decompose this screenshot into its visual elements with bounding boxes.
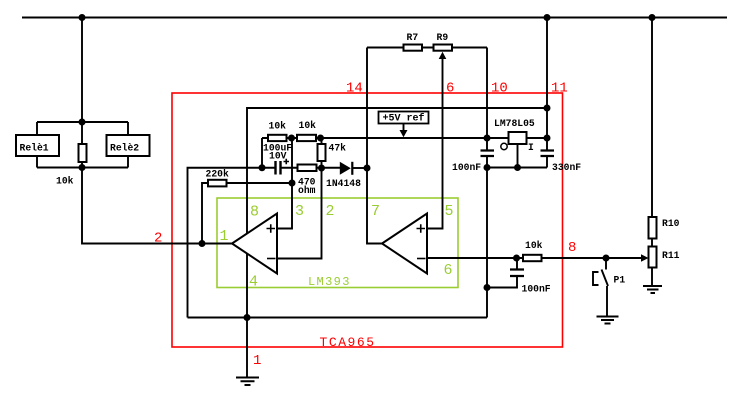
trimmer R11 (641, 247, 680, 268)
wire supply line pin 8 (247, 108, 547, 249)
node divider mid (288, 135, 295, 142)
ground R11 (643, 286, 662, 293)
wire 100nF2 lower lead to ground (487, 276, 517, 288)
IC box TCA965 (172, 93, 563, 347)
svg-text:1: 1 (253, 353, 261, 369)
pin label LM393 4 (249, 274, 258, 291)
wire 10k1 left lead corner (261, 138, 263, 168)
wire diode cathode lead (352, 167, 367, 169)
pushbutton P1 label (614, 275, 626, 286)
svg-text:6: 6 (444, 262, 453, 279)
svg-text:P1: P1 (614, 275, 626, 286)
svg-text:R7: R7 (407, 32, 419, 43)
pin label 10 (491, 81, 508, 97)
svg-text:3: 3 (295, 203, 304, 220)
svg-text:10k: 10k (525, 240, 543, 251)
node 100uF ground side (259, 164, 266, 171)
pin label 1 (253, 353, 261, 369)
svg-text:330nF: 330nF (552, 162, 581, 173)
node supply line pin11 (544, 105, 551, 112)
diode 1N4148 (326, 162, 361, 189)
pin label LM393 6 (444, 262, 453, 279)
svg-text:LM78L05: LM78L05 (494, 118, 535, 129)
pin label LM393 3 (295, 203, 304, 220)
wire pin 14 to op-amp B output (367, 48, 382, 244)
resistor 10k relay (56, 144, 87, 187)
op-amp B LM393 (382, 214, 427, 274)
IC label TCA965 (320, 335, 376, 350)
pin label LM393 8 (250, 204, 259, 221)
wire op-amp A noninverting input to divider (277, 138, 292, 229)
wire regulator ground line (487, 167, 547, 169)
switch P1 blade (602, 270, 609, 287)
wire 100uF to divider node (281, 167, 340, 169)
wire +5V rail (262, 137, 509, 139)
resistor R10 (649, 217, 680, 239)
svg-text:Relè2: Relè2 (110, 143, 139, 154)
wire R7 R9 top link (367, 47, 487, 49)
node output 10k left (513, 255, 520, 262)
svg-text:7: 7 (371, 203, 380, 220)
switch P1 actuator bracket (593, 272, 599, 285)
wire pin 11 from rail (546, 18, 548, 151)
wire P1 upper contact (605, 258, 607, 270)
wire regulator center pin (517, 144, 519, 168)
resistor 10k divider upper (268, 121, 287, 142)
IC box LM393 (217, 198, 458, 288)
svg-text:14: 14 (346, 81, 363, 97)
node 47k diode junction (318, 165, 325, 172)
resistor 470 ohm (298, 165, 317, 196)
pin label LM393 7 (371, 203, 380, 220)
svg-text:10k: 10k (269, 121, 287, 132)
svg-text:220k: 220k (206, 169, 229, 180)
capacitor 330nF (541, 151, 582, 174)
wire pin 4 to ground (246, 254, 248, 377)
pin label 11 (551, 81, 568, 97)
svg-text:8: 8 (568, 240, 576, 256)
svg-text:10: 10 (491, 81, 508, 97)
wire pin 10 branch lower ground (486, 156, 488, 318)
trimmer R9 (434, 32, 453, 59)
node regulator ground left (484, 164, 491, 171)
svg-text:10k: 10k (299, 120, 317, 131)
node 220k right junction (289, 180, 296, 187)
svg-text:Relè1: Relè1 (20, 143, 49, 154)
node diode cathode (364, 165, 371, 172)
regulator LM78L05 (494, 118, 535, 153)
ground main (236, 378, 259, 386)
node P1 junction (603, 255, 610, 262)
svg-text:I: I (528, 142, 534, 153)
relay Rele2 (107, 135, 150, 156)
wire pin 10 branch upper (486, 48, 488, 151)
svg-text:100nF: 100nF (452, 162, 481, 173)
svg-text:47k: 47k (329, 143, 347, 154)
wire R11 to ground (651, 268, 653, 286)
svg-text:R10: R10 (662, 218, 680, 229)
wire relay node to pin 2 (82, 168, 232, 244)
resistor 10k divider lower (297, 120, 316, 141)
wire Rele2 leads (127, 122, 129, 168)
wire R9 wiper to pin 5 (427, 58, 443, 229)
wire regulator input (527, 137, 548, 139)
pin label LM393 5 (445, 203, 454, 220)
wire relay resistor branch (81, 122, 83, 168)
IC label LM393 (308, 275, 351, 289)
pin label 8 output (568, 240, 576, 256)
node relay bottom (79, 164, 86, 171)
reference label +5V ref (379, 112, 429, 138)
svg-text:10V: 10V (269, 151, 287, 162)
node regulator ground mid (514, 164, 521, 171)
pin label LM393 1 (220, 228, 229, 245)
wire Rele1 leads (36, 122, 38, 168)
wire R10 R11 link (651, 239, 653, 247)
svg-text:5: 5 (445, 203, 454, 220)
node 100nF2 ground (484, 284, 491, 291)
wire relay bottom bar (37, 167, 128, 169)
wire feedback 220k path (202, 183, 292, 244)
node rail right (649, 14, 656, 21)
resistor 220k (206, 169, 229, 187)
capacitor 100uF 10V (263, 143, 292, 175)
svg-text:2: 2 (326, 203, 335, 220)
capacitor 100nF regulator output (452, 151, 494, 174)
op-amp A LM393 (232, 214, 277, 274)
node regulator input (544, 135, 551, 142)
wire top supply rail (22, 17, 727, 19)
svg-text:R9: R9 (437, 32, 449, 43)
wire +5V ref arrow stem (403, 124, 405, 131)
node rail pin11 (544, 14, 551, 21)
node divider top (317, 135, 324, 142)
node relay top (79, 119, 86, 126)
wire ground return left (188, 168, 275, 318)
pin label 2 (154, 231, 162, 247)
wire op-amp A inverting input (277, 168, 322, 259)
wire 47k branch (321, 138, 323, 168)
svg-text:ohm: ohm (298, 185, 316, 196)
capacitor 100nF output (510, 270, 551, 295)
svg-text:1N4148: 1N4148 (326, 178, 361, 189)
wire 330nF lower lead (546, 156, 548, 168)
wire relay branch drop (81, 18, 83, 123)
wire 100nF2 upper lead (516, 258, 518, 270)
relay Rele1 (16, 135, 59, 156)
resistor 47k (318, 143, 347, 162)
pin label 14 (346, 81, 363, 97)
node rail relay (79, 14, 86, 21)
pin label LM393 2 (326, 203, 335, 220)
svg-text:2: 2 (154, 231, 162, 247)
svg-text:LM393: LM393 (308, 275, 351, 289)
svg-text:TCA965: TCA965 (320, 335, 376, 350)
svg-text:6: 6 (446, 81, 454, 97)
svg-text:11: 11 (551, 81, 568, 97)
svg-text:1: 1 (220, 228, 229, 245)
resistor R7 (404, 32, 423, 51)
svg-text:8: 8 (250, 204, 259, 221)
wire output pin 8 line (427, 257, 641, 259)
wire bottom ground rail (188, 317, 488, 319)
svg-text:R11: R11 (662, 250, 680, 261)
node regulator output (484, 135, 491, 142)
svg-text:10k: 10k (56, 176, 74, 187)
svg-text:+5V ref: +5V ref (383, 113, 425, 125)
svg-text:4: 4 (249, 274, 258, 291)
wire P1 lower contact (606, 286, 608, 316)
resistor 10k output (523, 240, 543, 261)
node 220k output junction (199, 240, 206, 247)
ground P1 (597, 317, 619, 324)
wire right branch from rail to R10 (651, 18, 653, 218)
wire relay top bar (37, 121, 128, 123)
pin label 6 top (446, 81, 454, 97)
node bottom rail ground (244, 314, 251, 321)
svg-text:100nF: 100nF (522, 284, 551, 295)
